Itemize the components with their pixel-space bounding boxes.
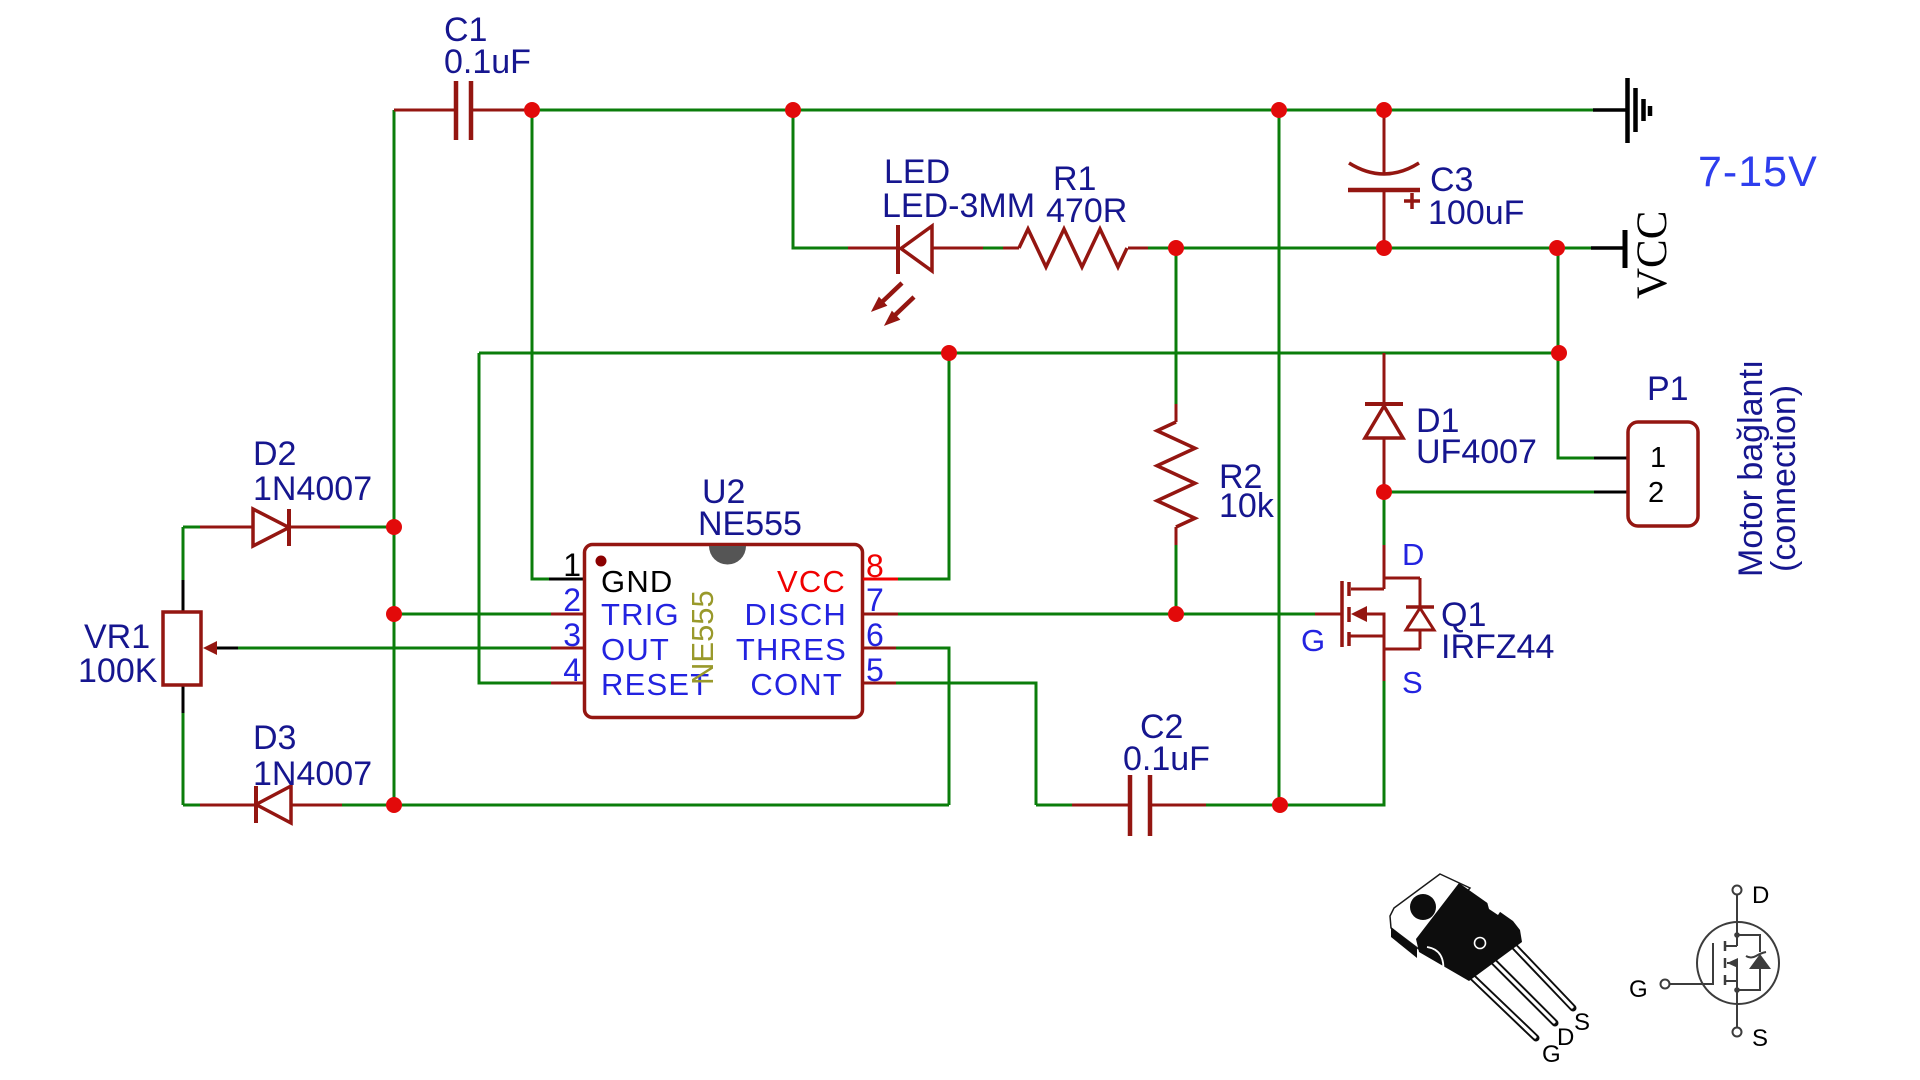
- op-amp U2 NE555 body: [585, 545, 863, 718]
- wire OUT row from VR1 wiper: [238, 647, 551, 650]
- wire D2 row right: [340, 526, 394, 529]
- capacitor C3: [1348, 110, 1420, 248]
- pin 7 stub: [863, 613, 898, 616]
- svg-text:3: 3: [563, 617, 581, 653]
- svg-text:NE555: NE555: [698, 505, 802, 543]
- svg-text:UF4007: UF4007: [1416, 433, 1537, 471]
- wire VR1 top lead black: [182, 580, 185, 612]
- resistor R1: [1003, 229, 1148, 267]
- svg-text:1N4007: 1N4007: [253, 755, 372, 793]
- power VCC: [1625, 211, 1676, 299]
- body: [1416, 883, 1522, 981]
- wire P1 pin2 black stub: [1594, 491, 1628, 494]
- capacitor C1: [394, 81, 532, 140]
- svg-text:D: D: [1402, 537, 1424, 572]
- svg-text:0.1uF: 0.1uF: [1123, 740, 1210, 778]
- leads: [1466, 943, 1573, 1038]
- wire pin1 black stub: [549, 578, 586, 581]
- wire vertical VCC to P1 pin1: [1558, 248, 1594, 458]
- svg-text:1: 1: [563, 547, 581, 583]
- svg-text:P1: P1: [1647, 370, 1689, 408]
- gate lead of Q1: [1315, 613, 1342, 616]
- transistor Q1: [1315, 545, 1434, 681]
- svg-text:100K: 100K: [78, 652, 158, 690]
- svg-text:IRFZ44: IRFZ44: [1441, 628, 1554, 666]
- wire vertical to pin8 VCC: [898, 353, 949, 579]
- svg-text:2: 2: [1648, 477, 1664, 509]
- wire gap between LED and R1: [983, 247, 1003, 250]
- wire VCC horizontal rail y353: [479, 352, 1559, 355]
- svg-text:D: D: [1557, 1024, 1574, 1051]
- wire VR1 bottom to D3: [182, 713, 185, 805]
- wire D1 anode to P1 pin2: [1384, 491, 1594, 494]
- diode D2: [200, 509, 340, 546]
- wire left vertical from C1 left: [393, 110, 396, 805]
- node junction dots: [386, 102, 1567, 813]
- svg-text:OUT: OUT: [601, 632, 670, 667]
- svg-text:VCC: VCC: [1629, 211, 1676, 299]
- svg-text:6: 6: [866, 617, 884, 653]
- wire D1 anode down to Q1 drain: [1383, 492, 1386, 545]
- potentiometer VR1: [163, 612, 217, 685]
- svg-text:(connection): (connection): [1765, 385, 1803, 572]
- diode LED: [848, 225, 983, 325]
- capacitor C2: [1072, 775, 1206, 836]
- symbol arrow and diode fills: [1727, 932, 1771, 993]
- svg-text:G: G: [1629, 976, 1648, 1003]
- svg-text:VR1: VR1: [84, 618, 150, 656]
- svg-text:VCC: VCC: [777, 564, 846, 599]
- tab: [1390, 874, 1470, 950]
- wire vertical to pin1 GND: [532, 110, 549, 579]
- wire VCC symbol stub: [1591, 246, 1623, 250]
- svg-text:1N4007: 1N4007: [253, 470, 372, 508]
- wire CONT row to C2: [896, 683, 1036, 805]
- svg-text:2: 2: [563, 582, 581, 618]
- diode D3: [200, 786, 342, 823]
- wire D3 row left: [183, 804, 200, 807]
- svg-text:D3: D3: [253, 719, 296, 757]
- transistor symbol bottom right: [1661, 886, 1780, 1037]
- svg-text:5: 5: [866, 652, 884, 688]
- pin 6 stub: [863, 647, 896, 650]
- wire VR1 wiper lead black: [214, 647, 238, 650]
- svg-text:CONT: CONT: [750, 667, 843, 702]
- svg-text:S: S: [1574, 1009, 1590, 1036]
- svg-text:LED: LED: [884, 153, 950, 191]
- wire top ground rail: [532, 109, 1593, 112]
- wire ground symbol stub: [1593, 108, 1626, 112]
- svg-text:TRIG: TRIG: [601, 597, 680, 632]
- svg-text:LED-3MM: LED-3MM: [882, 187, 1035, 225]
- svg-text:7: 7: [866, 582, 884, 618]
- svg-text:100uF: 100uF: [1428, 194, 1524, 232]
- svg-text:0.1uF: 0.1uF: [444, 43, 531, 81]
- wire long vertical ground to C2 junction: [1278, 110, 1281, 805]
- svg-text:10k: 10k: [1219, 487, 1275, 525]
- wire vertical to pin4 RESET: [479, 353, 551, 683]
- svg-text:S: S: [1402, 665, 1423, 700]
- svg-text:NE555: NE555: [685, 590, 720, 685]
- wire VCC rail right of R1: [1148, 247, 1591, 250]
- pin 8 stub red: [863, 578, 898, 581]
- svg-text:7-15V: 7-15V: [1698, 148, 1818, 196]
- wire P1 pin1 black stub: [1594, 457, 1628, 460]
- wire VR1 top to D2: [182, 527, 185, 580]
- pin 5 stub: [863, 682, 896, 685]
- connector P1: [1628, 422, 1698, 526]
- wire VR1 bottom lead black: [182, 685, 185, 713]
- pin 2 stub: [551, 613, 586, 616]
- svg-text:470R: 470R: [1046, 192, 1127, 230]
- svg-text:GND: GND: [601, 564, 674, 599]
- svg-text:8: 8: [866, 548, 884, 584]
- svg-text:1: 1: [1650, 442, 1666, 474]
- resistor R2: [1157, 404, 1195, 545]
- wire R2 bottom lead green: [1175, 545, 1178, 614]
- pin 4 stub: [551, 682, 586, 685]
- wire R2 top lead green: [1175, 248, 1178, 404]
- svg-text:S: S: [1752, 1025, 1768, 1052]
- ground: [1628, 78, 1651, 143]
- transistor TO-220 package drawing: [1390, 874, 1590, 1068]
- pin 3 stub: [551, 647, 586, 650]
- svg-text:4: 4: [563, 652, 581, 688]
- wire D2 row left: [183, 526, 200, 529]
- svg-text:D2: D2: [253, 435, 296, 473]
- wire C2 right to Q1 source: [1206, 681, 1384, 805]
- wire D3 row right: [342, 804, 949, 807]
- wire vertical to LED cathode: [793, 110, 848, 248]
- svg-text:G: G: [1301, 623, 1325, 658]
- svg-text:D: D: [1752, 882, 1769, 909]
- svg-text:DISCH: DISCH: [745, 597, 847, 632]
- wire THRES row to D3 line: [896, 648, 949, 805]
- svg-text:THRES: THRES: [736, 632, 847, 667]
- wire DISCH row to gate: [898, 613, 1315, 616]
- wire C2 left green: [1036, 804, 1072, 807]
- diode D1: [1365, 353, 1403, 492]
- wire TRIG row: [394, 613, 551, 616]
